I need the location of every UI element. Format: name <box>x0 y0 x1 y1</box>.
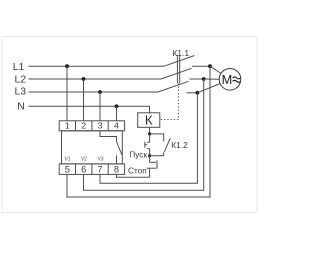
junction dot motor phase 2 <box>202 77 206 81</box>
contact K1.2 blade <box>164 138 170 152</box>
wire L2 <box>29 78 162 80</box>
wire terminal 6 return to phase 2 <box>84 79 204 190</box>
svg-text:К1.1: К1.1 <box>172 48 189 58</box>
junction dot N / terminal 4 <box>115 104 119 108</box>
pushbutton Стоп bridge <box>156 160 158 168</box>
relay internal contact blade <box>117 142 122 155</box>
motor M1 <box>219 69 241 91</box>
coil K <box>138 113 160 128</box>
contact K1.2 branch top wire <box>150 134 164 142</box>
relay A1 top terminal strip (terminals 1-4) <box>59 121 124 131</box>
svg-text:4: 4 <box>114 121 119 131</box>
contact K1.2 bottom wire <box>150 152 164 156</box>
wire L3 <box>29 91 159 93</box>
pushbutton Пуск upper lead <box>149 134 151 142</box>
relay internal contact wire from pin 3 <box>100 131 117 142</box>
junction dot control bottom <box>148 154 151 157</box>
wire N <box>29 106 150 113</box>
wire L1 contact to motor node <box>192 65 210 67</box>
wire Стоп to terminal 8 <box>117 174 150 177</box>
contact K1.1 linkage bar <box>176 55 178 83</box>
svg-text:L3: L3 <box>14 87 26 98</box>
wire L1 <box>29 65 165 67</box>
pushbutton Стоп lower lead <box>147 167 156 169</box>
svg-text:2: 2 <box>81 121 86 131</box>
wire L3 contact to motor node <box>187 92 198 94</box>
wire terminal 4 to N <box>116 106 118 121</box>
junction dot L2 / terminal 2 <box>82 77 86 81</box>
svg-text:3: 3 <box>98 121 103 131</box>
contact K1.1 pole 1 blade <box>164 56 195 67</box>
svg-text:Стоп: Стоп <box>128 165 147 175</box>
junction dot motor phase 1 <box>208 64 212 68</box>
contact K1.1 pole 3 blade <box>158 81 189 92</box>
relay A1 bottom terminal strip (terminals 5-8) <box>59 164 124 175</box>
pushbutton Пуск plunger <box>144 142 146 148</box>
wire terminal 7 return to phase 3 <box>100 93 197 184</box>
svg-text:V2: V2 <box>81 156 87 162</box>
wire terminal 5 return to phase 1 <box>67 66 210 197</box>
svg-text:L2: L2 <box>14 74 26 85</box>
junction dot L3 / terminal 3 <box>98 90 102 94</box>
svg-text:6: 6 <box>81 165 86 175</box>
svg-text:5: 5 <box>65 165 70 175</box>
pushbutton Стоп upper lead <box>149 156 151 163</box>
svg-text:7: 7 <box>97 165 102 175</box>
wire terminal 2 to L2 <box>83 79 85 121</box>
svg-text:1: 1 <box>65 121 70 131</box>
junction dot L1 / terminal 1 <box>65 64 69 68</box>
pushbutton Пуск lower lead <box>147 148 149 150</box>
contact K1.1 pole 2 blade <box>161 68 192 79</box>
relay internal contact lower lead to pin 8 <box>116 155 118 164</box>
junction dot motor phase 3 <box>196 91 200 95</box>
wire phase 3 to motor <box>197 84 220 93</box>
svg-text:N: N <box>17 102 25 113</box>
wire terminal 1 to L1 <box>66 66 68 121</box>
wire phase 1 to motor <box>210 66 221 73</box>
svg-text:M: M <box>222 72 233 87</box>
svg-text:V1: V1 <box>64 156 70 162</box>
svg-text:Пуск: Пуск <box>129 150 147 160</box>
junction dot control top <box>148 132 151 135</box>
svg-text:L1: L1 <box>13 62 25 73</box>
svg-text:V3: V3 <box>97 156 103 162</box>
svg-text:К1.2: К1.2 <box>171 140 188 150</box>
wire coil K to junction <box>149 127 151 134</box>
mechanical link dashed to coil K <box>159 83 178 119</box>
relay A1 body <box>62 131 123 164</box>
svg-text:8: 8 <box>114 165 119 175</box>
svg-text:К: К <box>145 113 153 128</box>
wire terminal 3 to L3 <box>99 92 101 121</box>
wire phase 2 to motor <box>204 78 220 80</box>
wire L2 contact to motor node <box>190 78 204 80</box>
